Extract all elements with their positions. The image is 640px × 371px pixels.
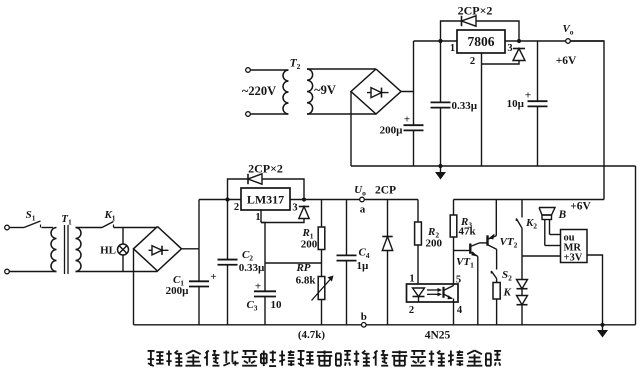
rail LM317 input xyxy=(199,199,241,201)
transformer T2 primary winding xyxy=(283,70,289,114)
svg-text:10: 10 xyxy=(271,299,283,311)
svg-text:10µ: 10µ xyxy=(507,98,525,110)
wire bridge B1 minus to bottom bus xyxy=(133,249,135,325)
capacitor C4 1µ xyxy=(346,200,348,256)
svg-text:a: a xyxy=(360,204,366,216)
svg-text:+6V: +6V xyxy=(556,55,577,67)
svg-text:Vo: Vo xyxy=(562,23,573,37)
svg-text:C3: C3 xyxy=(246,299,257,313)
capacitor 10µ (7806 output) xyxy=(537,41,539,101)
transformer T2 primary terminals (~220V mains input) xyxy=(246,68,251,73)
potentiometer RP 6.8k xyxy=(318,277,325,300)
optocoupler U3 4N25 box xyxy=(407,284,459,302)
diode 2CP output protection xyxy=(387,200,389,237)
svg-text:+3V: +3V xyxy=(564,253,583,264)
svg-text:2CP×2: 2CP×2 xyxy=(248,162,283,176)
transformer T1 core xyxy=(64,225,66,274)
wire LM317 adjust pin xyxy=(260,210,262,223)
terminal b xyxy=(362,323,367,328)
svg-text:+: + xyxy=(255,281,261,293)
switch S1 terminals xyxy=(5,225,10,230)
ground symbol (bottom right) xyxy=(600,323,604,327)
transformer T1 secondary winding xyxy=(76,228,82,272)
svg-text:200: 200 xyxy=(301,239,318,251)
wire T1 secondary bottom (AC) xyxy=(76,271,158,273)
svg-text:+: + xyxy=(525,90,531,102)
svg-text:K: K xyxy=(503,287,512,299)
wire 7806 pin2 to ground bus xyxy=(481,53,483,166)
svg-text:HL: HL xyxy=(100,245,116,257)
wire K2 to diode chain xyxy=(521,229,523,280)
pin 4 wire of 4N25 xyxy=(453,299,455,325)
svg-text:7806: 7806 xyxy=(468,34,495,49)
transistor VT2 xyxy=(486,235,488,245)
wire bridge B2 minus to ground bus xyxy=(350,92,352,167)
svg-text:T2: T2 xyxy=(290,58,301,72)
wire ground bus to bottom bus (right edge) xyxy=(635,166,637,325)
wire VT1 collector to VT2 base xyxy=(480,242,488,244)
rail +6V alarm xyxy=(454,199,605,201)
optocoupler phototransistor xyxy=(442,287,444,298)
bridge rectifier B1 diamond xyxy=(134,227,182,272)
music IC MR box xyxy=(561,230,588,263)
wire K1 to bridge B1 top xyxy=(114,227,158,229)
transistor VT1 xyxy=(469,244,471,254)
svg-text:S1: S1 xyxy=(26,209,36,223)
diode 2CP×2 protection loop over LM317 xyxy=(228,179,305,200)
svg-text:K1: K1 xyxy=(103,209,115,223)
regulator U1 LM317 box xyxy=(241,188,290,210)
resistor R2 200 xyxy=(417,200,419,223)
diode 2CP×2 protection loop over 7806 xyxy=(441,21,520,41)
svg-text:5: 5 xyxy=(456,275,461,286)
junction node at 7806 output xyxy=(517,39,521,43)
svg-text:LM317: LM317 xyxy=(247,193,284,207)
optocoupler LED xyxy=(413,288,425,297)
svg-text:(4.7k): (4.7k) xyxy=(298,329,326,341)
switch K2 xyxy=(521,200,523,218)
optocoupler light arrows xyxy=(427,289,438,291)
bridge rectifier B2 diamond xyxy=(351,69,401,114)
svg-text:RP: RP xyxy=(295,262,310,274)
rail +9V regulated (right of 7806) xyxy=(505,40,604,42)
capacitor 0.33µ (7806 input) xyxy=(440,41,442,102)
svg-text:200µ: 200µ xyxy=(166,285,190,297)
wire K coil to bus xyxy=(496,299,498,325)
svg-text:3: 3 xyxy=(507,43,512,54)
svg-text:2: 2 xyxy=(234,202,239,213)
svg-text:4N25: 4N25 xyxy=(425,330,451,342)
svg-text:+: + xyxy=(210,271,216,283)
diode at 7806 output pin3 xyxy=(513,48,525,50)
svg-text:200: 200 xyxy=(426,238,443,250)
wire bridge B2 plus output xyxy=(401,41,414,92)
svg-text:T1: T1 xyxy=(61,213,72,227)
relay coil K xyxy=(493,283,500,300)
switch S1 xyxy=(9,227,24,229)
svg-text:6.8k: 6.8k xyxy=(296,275,317,287)
transformer T1 primary winding xyxy=(51,228,56,272)
wire bridge B1 plus to LM317 input xyxy=(182,248,200,250)
wire Vo to +6V rail drop xyxy=(570,41,604,200)
svg-text:C4: C4 xyxy=(358,247,369,261)
svg-text:2CP: 2CP xyxy=(375,185,396,197)
svg-text:K2: K2 xyxy=(525,217,537,231)
capacitor C2 0.33µ xyxy=(227,200,229,260)
svg-text:4: 4 xyxy=(457,305,463,316)
svg-text:C2: C2 xyxy=(242,249,253,263)
wire K2 node to MR +3V pin xyxy=(522,255,561,257)
diode D4 (voltage drop) xyxy=(517,296,528,305)
wire MR return to ground xyxy=(587,255,603,325)
capacitor 200µ (input filter) xyxy=(413,92,415,126)
terminal Vo xyxy=(566,39,571,44)
pin 5 wire of 4N25 xyxy=(453,251,455,286)
svg-text:+6V: +6V xyxy=(570,201,591,213)
resistor R3 47k xyxy=(453,200,455,216)
speaker B xyxy=(542,215,552,220)
wire speaker to MR box xyxy=(550,234,561,236)
svg-text:3: 3 xyxy=(292,203,297,214)
diode D3 (voltage drop) xyxy=(517,280,528,289)
wire T2 secondary bottom to bridge xyxy=(307,113,376,115)
svg-text:B: B xyxy=(558,209,567,221)
wire VT1 base xyxy=(454,250,470,252)
svg-text:b: b xyxy=(361,311,367,323)
svg-text:47k: 47k xyxy=(459,226,477,238)
svg-text:VT2: VT2 xyxy=(500,236,518,250)
lamp HL branch wires xyxy=(122,228,124,245)
svg-text:1: 1 xyxy=(255,212,260,223)
relay contact K1 xyxy=(76,227,103,229)
svg-text:1: 1 xyxy=(450,43,455,54)
svg-text:~220V: ~220V xyxy=(242,84,276,98)
diode LM317 output to adjust xyxy=(299,206,309,208)
junction dot LM317 output xyxy=(302,197,306,201)
rail LM317 output xyxy=(290,199,418,201)
wire S1 bottom to T1 xyxy=(9,271,56,273)
junction node at 7806 input xyxy=(438,39,442,43)
bridge B1 internal diode xyxy=(149,249,169,251)
terminal a (Uo) xyxy=(360,197,365,202)
svg-text:0.33µ: 0.33µ xyxy=(239,262,265,274)
svg-text:1µ: 1µ xyxy=(357,260,370,272)
svg-text:+: + xyxy=(404,114,410,126)
svg-text:1: 1 xyxy=(409,274,414,285)
svg-text:2CP×2: 2CP×2 xyxy=(458,4,493,18)
ground bus (top section) xyxy=(351,165,636,167)
junction dot LM317 input xyxy=(225,197,229,201)
capacitor C3 10µ (adjust) xyxy=(264,289,266,292)
svg-text:S2: S2 xyxy=(502,269,512,283)
svg-text:VT1: VT1 xyxy=(456,256,474,270)
resistor R1 200 xyxy=(321,200,323,228)
svg-text:2: 2 xyxy=(409,305,414,316)
caption 短路全保护声光报警直流稳压电源电路原理图 (schematic title) xyxy=(148,351,501,367)
svg-text:200µ: 200µ xyxy=(380,125,404,137)
svg-text:~9V: ~9V xyxy=(314,83,336,97)
svg-text:Uo: Uo xyxy=(354,184,366,198)
transformer T2 secondary winding xyxy=(307,69,313,114)
bottom bus (b rail) xyxy=(134,324,636,326)
ground symbol (top) xyxy=(438,164,442,168)
svg-text:0.33µ: 0.33µ xyxy=(452,100,478,112)
rail +9V unregulated (left of 7806) xyxy=(414,40,458,42)
wire T2 secondary top to bridge xyxy=(307,68,376,70)
capacitor C1 200µ xyxy=(198,249,200,281)
switch S2 xyxy=(491,271,496,279)
regulator U2 7806 box xyxy=(457,30,505,53)
wire adjust to R1/RP junction xyxy=(265,262,322,264)
lamp HL xyxy=(118,244,129,255)
svg-text:2: 2 xyxy=(470,56,475,67)
bridge B2 internal diode xyxy=(367,92,389,94)
